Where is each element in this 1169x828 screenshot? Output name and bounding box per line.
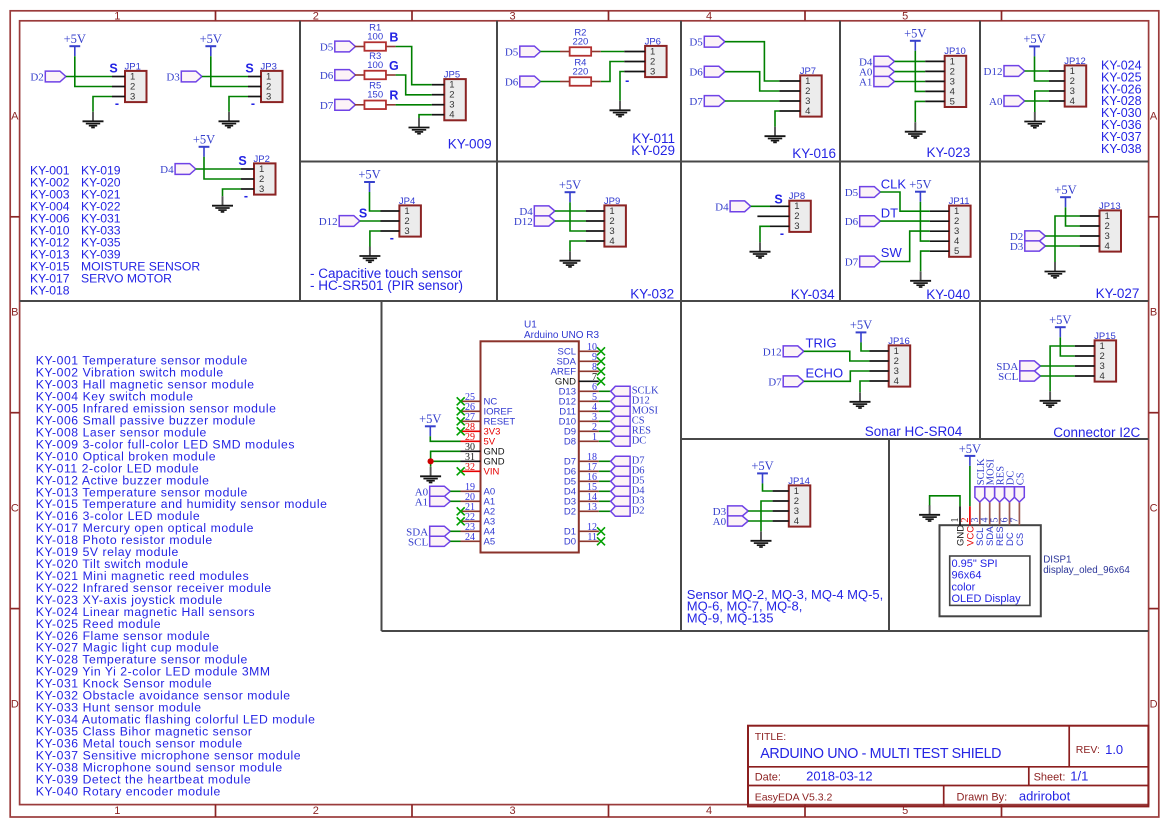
svg-text:display_oled_96x64: display_oled_96x64 [1043,565,1130,576]
svg-text:KY-038: KY-038 [1101,142,1142,156]
wire D5 to R2 [540,51,560,53]
svg-text:2018-03-12: 2018-03-12 [806,769,873,784]
wire JP11 pin5 to ground [921,251,930,271]
wire A1 to JP10 pin3 [895,81,926,83]
wire D7 to JP7 pin3 [725,100,780,102]
port flag SDA (U1) [430,526,451,536]
junction (U1 ground) [428,458,434,464]
svg-text:CS: CS [1015,472,1026,485]
wire SCL to JP15 pin4 [1040,375,1074,377]
svg-text:D7: D7 [845,257,859,269]
svg-text:D12: D12 [984,66,1003,78]
pin stub JP8 pin2 (unconnected) [757,215,770,217]
wire D3 to JP13 pin4 [1045,245,1080,247]
wire JP7 pin4 to ground [775,111,779,127]
U1 pin 16 D5 [564,472,599,488]
title block outer frame [748,726,1148,807]
U1 pin 11 D0 [564,532,605,548]
section divider vertical x=840 [839,21,841,301]
svg-text:D3: D3 [166,72,180,84]
section divider vertical x=980 [979,21,981,439]
svg-text:KY-027: KY-027 [1096,286,1140,301]
KY module list (right column) [1101,58,1142,156]
svg-text:KY-032: KY-032 [630,286,674,301]
port flag D2 [45,71,66,82]
U1 pin 24 A5 [461,532,496,548]
svg-text:1: 1 [114,11,120,23]
U1 pin 31 GND [461,452,505,468]
connector JP12 [1065,65,1087,106]
U1 pin 5 D12 [559,392,599,408]
svg-text:96x64: 96x64 [952,570,982,582]
svg-text:+5V: +5V [193,132,215,146]
svg-text:4: 4 [805,106,810,117]
svg-text:S: S [774,192,782,206]
section divider vertical x=497 [496,21,498,301]
wire U1 pin31 to GND net [431,460,461,462]
connector JP10 [945,56,967,107]
port flag SCLK (DISP1) [975,487,985,502]
svg-text:7: 7 [1009,518,1020,523]
wire D3 to JP14 pin3 [748,510,772,512]
svg-text:2: 2 [313,11,319,23]
wire D7 ECHO to JP16 pin3 [804,371,870,381]
DISP1 pin 2 VCC [960,506,976,546]
U1 pin 26 IOREF [457,402,513,418]
title block divider row1 [748,766,1148,768]
port flag D6 (KY-011) [520,76,541,87]
svg-text:SW: SW [881,245,903,260]
svg-text:SERVO MOTOR: SERVO MOTOR [81,271,172,285]
wire D6 to R4 [540,81,560,83]
svg-text:+5V: +5V [419,412,441,426]
svg-text:JP5: JP5 [444,70,460,81]
svg-text:D12: D12 [319,216,338,228]
wire JP1 pin3 to ground [93,97,112,112]
connector JP16 [889,345,911,386]
port flag D4 (KY-023) [874,56,895,66]
svg-text:A5: A5 [484,537,496,548]
port flag D4 out (U1 right) [611,486,631,496]
ground (JP1) [92,112,94,122]
port flag D7 (Sonar) [783,376,804,387]
wire +5V to JP14 pin1 [763,483,773,491]
U1 pin 30 GND [461,442,505,458]
wire D4 to JP8 pin1 [751,205,770,207]
svg-text:DC: DC [632,436,647,447]
svg-text:adrirobot: adrirobot [1019,789,1071,804]
svg-text:S: S [245,61,253,75]
port flag D2 (KY-027) [1025,231,1046,241]
svg-text:KY-023: KY-023 [927,145,971,160]
KY module list (bottom left) [36,354,328,799]
U1 pin 7 GND [555,372,605,388]
connector JP2 [254,163,276,194]
wire D12 TRIG to JP16 pin2 [804,351,870,361]
resistor R4 220 [560,81,570,83]
ground (U1) [430,467,432,477]
svg-text:D12: D12 [763,346,782,358]
U1 pin 23 A4 [461,522,496,538]
ground (KY-024) [1034,112,1036,122]
svg-text:KY-040: KY-040 [926,287,970,302]
svg-text:Sheet:: Sheet: [1034,772,1066,784]
port flag MOSI (DISP1) [985,487,995,502]
wire D4 to JP9 pin1 [555,210,586,212]
svg-text:JP3: JP3 [261,61,277,72]
svg-text:color: color [952,581,976,593]
svg-text:D6: D6 [845,216,859,228]
svg-text:4: 4 [1100,371,1105,382]
wire U1 to flag D7 out [599,460,611,462]
svg-text:OLED Display: OLED Display [952,593,1022,605]
svg-text:11: 11 [587,532,597,543]
port flag D5 out (U1 right) [611,476,631,486]
svg-text:A0: A0 [989,96,1003,108]
wire SCL to U1 pin24 [450,540,460,542]
wire U1 to flag SCLK [599,390,611,392]
U1 pin 9 SDA [556,352,605,368]
wire R1 to JP5 pin1 [396,47,432,85]
svg-text:A: A [11,111,19,123]
svg-text:100: 100 [367,60,383,71]
svg-text:+5V: +5V [904,26,926,40]
svg-text:D4: D4 [715,201,729,213]
wire JP14 pin2 to ground [761,501,773,531]
section divider horizontal y=301 [20,300,1149,302]
svg-text:JP15: JP15 [1094,331,1116,342]
svg-text:1/1: 1/1 [1070,769,1088,784]
wire D2 to JP13 pin3 [1045,235,1080,237]
port flag D2 out (U1 right) [611,506,631,516]
wire +5V to JP12 pin2 [1035,56,1050,81]
svg-text:JP12: JP12 [1064,56,1086,67]
wire U1 to flag D5 out [599,480,611,482]
port flag DC (DISP1) [1005,487,1015,502]
svg-text:3: 3 [509,805,515,817]
svg-text:+5V: +5V [358,168,380,182]
svg-text:Date:: Date: [755,772,781,784]
port flag RES (U1 right) [611,426,631,436]
wire D4 to JP10 pin1 [895,60,926,62]
wire A0 to JP12 pin4 [1025,100,1049,102]
port flag D5 (KY-011) [520,46,541,57]
DISP1 screen inner box [950,556,1030,605]
svg-text:DT: DT [881,205,898,220]
svg-text:+5V: +5V [1049,313,1071,327]
svg-text:S: S [359,207,367,221]
svg-text:C: C [11,503,19,515]
U1 pin 21 A2 [457,502,495,518]
connector JP1 [125,71,147,102]
svg-text:KY-009: KY-009 [448,136,492,151]
wire D12 to JP9 pin2 [555,220,586,222]
svg-text:DISP1: DISP1 [1043,555,1071,566]
port flag A1 (KY-023) [874,76,895,86]
svg-text:D: D [11,699,19,711]
port flag D6 (KY-009) [335,70,356,81]
U1 pin 13 D2 [564,502,599,518]
U1 pin 22 A3 [457,512,495,528]
wire D12 to JP4 pin2 [360,220,381,222]
svg-text:-: - [390,231,394,245]
svg-text:KY-016: KY-016 [792,146,836,161]
svg-text:U1: U1 [524,320,537,331]
svg-text:KY-040 Rotary encoder module: KY-040 Rotary encoder module [36,784,221,798]
section divider vertical x=889 [888,439,890,631]
svg-text:MQ-9, MQ-135: MQ-9, MQ-135 [687,611,774,626]
U1 pin 20 A1 [461,492,496,508]
svg-text:+5V: +5V [64,32,86,46]
port flag CS (U1 right) [611,416,631,426]
port flag A0 (MQ) [728,516,749,526]
ground (KY-040) [920,271,922,281]
port flag D3 (KY-027) [1025,241,1046,251]
connector JP9 [604,205,626,246]
wire D6 to JP11 pin2 [880,220,930,222]
svg-text:D2: D2 [564,507,576,518]
svg-text:D4: D4 [160,164,174,176]
resistor R3 100 [355,74,365,76]
left ruler ticks [10,216,19,218]
bottom ruler ticks [215,805,217,817]
wire U1 to flag RES [599,430,611,432]
U1 pin 2 D9 [564,422,599,438]
wire U1 to flag D4 out [599,490,611,492]
svg-text:A0: A0 [713,516,727,528]
wire A0 to U1 pin19 [450,490,460,492]
wire A0 to JP14 pin4 [748,520,772,522]
title block divider row2 [748,785,1148,787]
svg-text:3: 3 [509,11,515,23]
svg-text:B: B [1150,307,1157,319]
port flag D7 (KY-040) [860,256,881,267]
U1 pin 8 AREF [551,362,605,378]
ground (KY-034) [759,242,761,252]
right ruler ticks [1149,216,1159,218]
U1 pin 19 A0 [461,482,496,498]
wire JP2 pin3 to ground [223,189,242,196]
svg-text:4: 4 [706,805,712,817]
connector JP3 [261,71,283,102]
wire R5 to JP5 pin3 [396,104,432,106]
wire R3 to JP5 pin2 [396,75,432,95]
wire +5V to JP16 pin1 [861,342,870,351]
svg-text:SCL: SCL [998,371,1018,383]
port flag SCLK (U1 right) [611,386,631,396]
svg-text:KY-034: KY-034 [791,287,835,302]
svg-text:G: G [389,59,399,73]
connector JP8 [789,201,811,232]
port flag D12 (JP4) [339,216,360,227]
port flag D12 (U1 right) [611,396,631,406]
wire U1 to flag D6 out [599,470,611,472]
ground (KY-023) [914,122,916,132]
svg-text:100: 100 [367,31,383,42]
section divider horizontal y=161.5 [300,161,1149,163]
U1 pin 25 NC [457,392,498,408]
svg-text:JP8: JP8 [789,191,805,202]
svg-text:5: 5 [950,96,955,107]
svg-text:A: A [1150,111,1158,123]
section divider vertical x=300 [299,21,301,301]
U1 pin 15 D4 [564,482,599,498]
svg-text:D6: D6 [689,67,703,79]
U1 pin 17 D6 [564,462,599,478]
svg-text:5: 5 [902,11,908,23]
port flag D6 (KY-040) [860,216,881,227]
svg-text:SCL: SCL [408,536,428,548]
svg-text:JP9: JP9 [604,196,620,207]
svg-text:D7: D7 [689,96,703,108]
svg-text:ARDUINO UNO - MULTI TEST SHIEL: ARDUINO UNO - MULTI TEST SHIELD [760,746,1001,762]
svg-text:0.95" SPI: 0.95" SPI [952,558,998,570]
svg-text:JP1: JP1 [125,61,141,72]
U1 pin 28 3V3 [457,422,501,438]
svg-text:JP6: JP6 [645,36,661,47]
wire U1 to flag D2 out [599,510,611,512]
svg-text:13: 13 [587,502,597,513]
port flag D4 (KY-032) [534,206,555,216]
svg-text:D5: D5 [689,37,703,49]
svg-text:A1: A1 [415,496,428,508]
DISP1 pin 3 SCL [970,502,986,546]
svg-text:2: 2 [313,805,319,817]
U1 pin 10 SCL [558,342,605,358]
svg-text:VIN: VIN [484,467,500,478]
wire JP15 pin1 to ground [1050,346,1075,391]
wire +5V to JP10 pin4 [915,51,925,92]
port flag D6 out (U1 right) [611,466,631,476]
DISP1 pin 1 GND [950,506,966,546]
svg-text:D5: D5 [845,187,859,199]
svg-text:D6: D6 [505,77,519,89]
port flag D6 (KY-016) [704,66,725,77]
wire JP12 pin3 to ground [1035,91,1049,112]
component U1 Arduino UNO R3 body [481,341,579,552]
wire JP4 pin3 to ground [370,231,381,247]
svg-text:REV:: REV: [1076,744,1100,756]
connector JP15 [1095,340,1117,381]
wire SDA to U1 pin23 [450,530,460,532]
port flag D7 (KY-009) [335,99,356,110]
U1 pin 12 D1 [564,522,605,538]
svg-text:-: - [780,226,784,240]
svg-text:Arduino UNO R3: Arduino UNO R3 [524,330,599,341]
svg-text:3: 3 [130,91,135,102]
svg-text:1: 1 [592,432,597,443]
wire D2 to JP1 pin1 [66,76,112,78]
port flag DC (U1 right) [611,436,631,446]
port flag D3 [181,71,202,82]
svg-text:JP7: JP7 [800,66,816,77]
wire +5V to JP11 pin4 [920,202,929,241]
section divider horizontal y=439 [681,438,1149,440]
wire +5V to JP15 pin2 [1060,337,1075,356]
connector JP11 [949,206,971,257]
wire JP3 pin3 to ground [229,97,248,112]
resistor R1 100 [355,46,365,48]
port flag D7 out (U1 right) [611,456,631,466]
wire DISP1 GND bridge [930,496,960,506]
wire A0 to JP10 pin2 [895,71,926,73]
ground (KY-027) [1054,262,1056,272]
wire U1 GND net [431,451,461,467]
wire JP5 pin4 to ground [419,115,432,118]
wire +5V to DISP1 VCC [969,466,971,506]
svg-text:-: - [251,96,255,110]
top ruler ticks [215,11,217,21]
svg-text:3: 3 [266,91,271,102]
wire U1 to flag CS [599,420,611,422]
svg-text:- HC-SR501 (PIR sensor): - HC-SR501 (PIR sensor) [310,278,463,293]
ground (JP3) [228,112,230,122]
svg-text:ECHO: ECHO [806,366,844,381]
U1 pin 18 D7 [564,452,599,468]
svg-text:+5V: +5V [751,459,773,473]
ground (KY-016) [774,127,776,137]
svg-text:3: 3 [404,226,409,237]
svg-text:JP11: JP11 [949,196,970,207]
svg-text:JP14: JP14 [788,476,810,487]
U1 pin 29 5V [461,432,496,448]
svg-text:32: 32 [465,462,475,473]
svg-text:S: S [109,61,117,75]
ground (KY-011) [619,101,621,111]
svg-text:+5V: +5V [559,178,581,192]
title block divider Sheet [1028,767,1030,786]
title block divider Drawn By [943,786,945,807]
svg-text:4: 4 [609,236,614,247]
port flag D4 (JP2) [175,164,196,175]
section divider vertical x=381.5 (U1 box left) [381,301,383,631]
DISP1 pin 6 DC [1000,502,1016,546]
port flag A0 (U1) [430,486,451,496]
svg-text:C: C [1150,503,1158,515]
svg-text:TITLE:: TITLE: [755,731,787,743]
svg-text:3: 3 [794,221,799,232]
DISP1 screen text [952,558,1022,605]
svg-text:-: - [115,96,119,110]
wire U1 to flag D12 [599,400,611,402]
svg-text:D12: D12 [514,216,533,228]
port flag CS (DISP1) [1015,487,1025,502]
svg-text:D2: D2 [632,506,645,517]
svg-text:B: B [11,307,18,319]
wire JP6 pin3 to ground [620,72,624,101]
wire D5 to JP11 pin1 [880,192,930,211]
svg-text:JP2: JP2 [254,154,270,165]
svg-text:3: 3 [259,184,264,195]
connector JP7 [800,75,822,116]
svg-text:4: 4 [706,11,712,23]
ground (MQ) [760,531,762,541]
svg-text:4: 4 [1104,241,1109,252]
svg-text:+5V: +5V [959,442,981,456]
wire JP13 pin1 to ground [1055,216,1080,262]
connector JP14 [789,485,811,526]
port flag RES (DISP1) [995,487,1005,502]
ground (I2C) [1049,391,1051,401]
svg-text:D: D [1150,699,1158,711]
port flag SDA (I2C) [1020,361,1041,371]
connector JP6 [645,46,667,77]
U1 pin 1 D8 [564,432,599,448]
wire +5V to JP4 pin1 [370,192,381,211]
ground (KY-009) [418,118,420,128]
svg-text:KY-029: KY-029 [631,143,675,158]
svg-text:+5V: +5V [850,318,872,332]
